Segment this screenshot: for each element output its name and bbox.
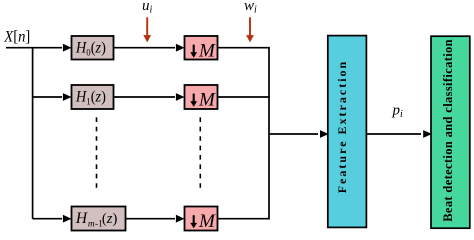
wire: M3 to collector (218, 218, 270, 220)
wire: input line from left to H0 (6, 47, 62, 49)
wire: branch to H1 (33, 96, 62, 98)
wire: collector vertical (268, 48, 270, 219)
Beat detection and classification box (431, 36, 470, 228)
arrowhead into H1 (63, 93, 72, 101)
red arrow w_i (249, 17, 251, 36)
svg-text:Feature Extraction: Feature Extraction (335, 60, 349, 193)
dashed line H column (96, 117, 98, 190)
svg-text:(z): (z) (102, 211, 117, 227)
filter Hm-1(z) (72, 207, 126, 231)
svg-text:H1(z): H1(z) (75, 89, 106, 108)
arrowhead into M1 (176, 44, 185, 52)
arrowhead into Beat detection (423, 130, 432, 138)
downsampler M3 (185, 207, 218, 232)
arrowhead into Feature Extraction (320, 130, 329, 138)
svg-text:X[n]: X[n] (3, 28, 30, 45)
arrowhead into M3 (176, 215, 185, 223)
wire: M2 to collector (218, 96, 270, 98)
wire: H1 to M2 (114, 96, 176, 98)
filter H1(z) (72, 85, 114, 109)
arrowhead into H0 (63, 44, 72, 52)
wire: M1 to collector (218, 47, 270, 49)
wire: branch vertical line (32, 48, 34, 219)
svg-text:M: M (198, 40, 216, 61)
downsampler M2 (185, 85, 218, 110)
svg-text:H: H (75, 210, 88, 227)
filter H0(z) (72, 36, 114, 60)
dashed line M column (199, 117, 201, 190)
svg-text:Beat detection and classificat: Beat detection and classification (441, 39, 455, 222)
svg-text:M: M (198, 211, 216, 232)
wire: H0 to M1 (114, 47, 176, 49)
svg-text:M: M (198, 89, 216, 110)
arrowhead into M2 (176, 93, 185, 101)
wire: Hm-1 to M3 (126, 218, 176, 220)
svg-text:m: m (88, 219, 95, 229)
Feature Extraction box (328, 36, 367, 228)
arrowhead into Hm-1 (63, 215, 72, 223)
downsampler M1 (185, 36, 218, 61)
svg-text:H0(z): H0(z) (75, 39, 106, 58)
red arrow u_i (146, 17, 148, 36)
wire: collector to Feature Extraction (269, 133, 318, 135)
wire: branch to Hm-1 (33, 218, 62, 220)
wire: Feature Extraction to Beat detection (366, 133, 421, 135)
